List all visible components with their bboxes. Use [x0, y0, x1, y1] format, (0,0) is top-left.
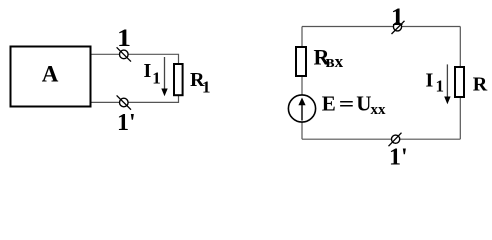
- terminal 1' (left circuit): [117, 95, 131, 109]
- label I1 (right circuit): [426, 70, 445, 96]
- svg-text:1: 1: [436, 77, 445, 96]
- label I1 (left circuit): [144, 60, 161, 88]
- wire right branch (right circuit): [459, 27, 461, 140]
- label E = Uxx: [322, 92, 386, 119]
- wire left branch (right circuit): [301, 27, 303, 140]
- two-terminal network box A: [11, 47, 91, 107]
- svg-text:1': 1': [117, 110, 136, 136]
- svg-text:E: E: [322, 92, 336, 116]
- svg-text:вх: вх: [326, 52, 344, 71]
- svg-text:R: R: [473, 73, 488, 95]
- svg-text:1: 1: [202, 78, 211, 97]
- resistor Rvx (input resistance): [296, 47, 306, 76]
- resistor R1: [174, 64, 183, 95]
- wire from resistor R1 back to box A (bottom): [92, 96, 179, 103]
- terminal 1' (right circuit): [389, 133, 402, 147]
- svg-text:1: 1: [152, 69, 161, 88]
- wire from box A to resistor R1 (top): [92, 54, 179, 63]
- label R1: [190, 69, 211, 97]
- current arrow I1 (right circuit): [444, 64, 450, 104]
- svg-text:U: U: [356, 92, 371, 116]
- svg-text:1: 1: [117, 25, 131, 52]
- svg-text:1': 1': [389, 145, 408, 170]
- label Rvx: [314, 45, 344, 71]
- EMF source E: [288, 95, 315, 122]
- svg-text:I: I: [144, 60, 152, 82]
- svg-text:1: 1: [391, 4, 404, 31]
- wire bottom (right circuit): [302, 138, 460, 140]
- svg-text:хх: хх: [371, 102, 387, 118]
- svg-text:=: =: [339, 92, 355, 116]
- terminal 1 (left circuit): [117, 47, 131, 61]
- wire top (right circuit): [302, 26, 460, 28]
- svg-text:A: A: [42, 62, 59, 87]
- resistor R (right circuit): [455, 67, 464, 97]
- terminal 1 (right circuit): [392, 21, 405, 34]
- current arrow I1 (left circuit): [161, 57, 167, 96]
- svg-text:I: I: [426, 70, 434, 92]
